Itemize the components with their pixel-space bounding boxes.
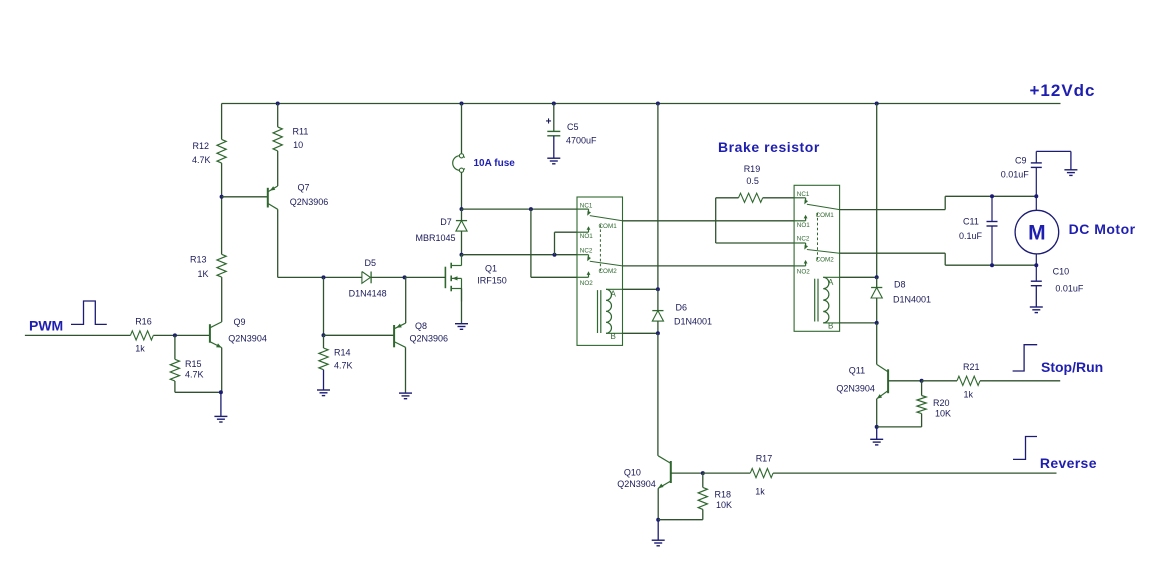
wire C11 bottom lead [991, 226, 993, 265]
node NC1 branch [529, 207, 533, 211]
node Q11 emitter [875, 425, 879, 429]
wire R21 right [980, 380, 1060, 382]
svg-text:4700uF: 4700uF [566, 136, 597, 146]
wire Q7 base [222, 196, 268, 198]
relay pin NC1 [577, 208, 589, 210]
relay K1 box [577, 197, 623, 345]
wire R13-Q9 collector [221, 277, 223, 322]
svg-text:MBR1045: MBR1045 [416, 233, 456, 243]
resistor R11 [273, 127, 282, 151]
svg-text:0.1uF: 0.1uF [959, 231, 983, 241]
svg-text:NO1: NO1 [580, 233, 593, 240]
wire K1 COM2 - K2 NO2 [623, 265, 795, 267]
svg-text:D1N4148: D1N4148 [349, 288, 387, 298]
svg-text:+12Vdc: +12Vdc [1030, 81, 1096, 100]
wire R11 top lead [277, 104, 279, 127]
wire Q7 collector to D5 [278, 276, 362, 278]
resistor R20 [917, 396, 926, 414]
node R18 top [701, 471, 705, 475]
resistor R16 [130, 331, 153, 340]
wire K2 COM1 out [840, 209, 946, 211]
node rail-K2 [875, 102, 879, 106]
wire C5 top lead [553, 104, 555, 132]
node K1 B [656, 331, 660, 335]
svg-text:1k: 1k [755, 487, 765, 497]
diode D5 [362, 272, 371, 284]
wire Q8 collector [405, 347, 407, 393]
node D5 anode [322, 275, 326, 279]
ground Q9 [220, 392, 222, 416]
relay K1 dashed link [599, 225, 601, 274]
node K2 B [875, 321, 879, 325]
relay K1 coil [606, 289, 612, 333]
svg-text:0.01uF: 0.01uF [1001, 170, 1030, 180]
wire R19 right [763, 197, 794, 199]
svg-text:R20: R20 [933, 398, 950, 408]
capacitor C10 [1031, 280, 1042, 282]
svg-text:D1N4001: D1N4001 [674, 317, 712, 327]
ground Q1 [455, 323, 468, 325]
svg-text:NC1: NC1 [797, 191, 810, 198]
wire rail to K1 coil [657, 104, 659, 290]
svg-text:A: A [828, 278, 834, 287]
resistor R14 [319, 348, 328, 370]
node Q9 emitter-gnd [219, 390, 223, 394]
svg-text:Q2N3906: Q2N3906 [410, 334, 449, 344]
diode D6 [652, 310, 663, 312]
wire D6 leads [657, 289, 659, 310]
svg-text:PWM: PWM [29, 317, 63, 333]
ground Q8 [399, 392, 412, 394]
relay blade NC1-COM1 [807, 204, 840, 209]
wire K1 coil A [606, 288, 623, 290]
wire Q11 emitter [876, 399, 878, 427]
wire Q8 emitter up [405, 277, 407, 323]
svg-text:C11: C11 [963, 217, 979, 227]
wire K2 COM2 out [840, 252, 946, 254]
wire C11 top lead [991, 196, 993, 221]
svg-text:10A fuse: 10A fuse [474, 158, 516, 169]
wire R12 top lead [221, 104, 223, 140]
mosfet Q1 IRF150 [444, 267, 446, 289]
wire fuse bottom lead [461, 172, 463, 209]
svg-text:R21: R21 [963, 362, 980, 372]
svg-text:NO2: NO2 [797, 269, 810, 276]
relay pin NO2 [794, 265, 806, 267]
wire Q11 base [888, 380, 922, 382]
fuse F1 10A [453, 156, 465, 171]
relay pin NC2 [794, 242, 806, 244]
ground R14 [323, 370, 325, 390]
transistor Q9 [209, 324, 211, 343]
relay pin NO1 [794, 220, 806, 222]
relay pin NC2 [577, 254, 589, 256]
node motor top [1034, 194, 1038, 198]
transistor Q10 [670, 461, 672, 483]
wire R15 top lead [174, 335, 176, 359]
node D7 top [460, 207, 464, 211]
svg-text:D5: D5 [365, 258, 377, 268]
svg-text:Q7: Q7 [298, 182, 310, 192]
wire C10 top lead [1035, 265, 1037, 281]
diode D8 [871, 287, 882, 289]
svg-text:D6: D6 [676, 303, 688, 313]
resistor R18 [698, 487, 707, 509]
node rail-R11 [276, 102, 280, 106]
step symbol Stop/Run [1013, 345, 1038, 371]
wire D5-Q1 gate [371, 276, 404, 278]
node Q7 base [220, 195, 224, 199]
step symbol Reverse [1013, 437, 1037, 460]
wire Q1 gate [405, 276, 446, 278]
svg-text:Reverse: Reverse [1040, 455, 1097, 471]
wire R19 left loop [716, 197, 739, 199]
svg-text:D1N4001: D1N4001 [893, 295, 931, 305]
wire Q10 base [671, 472, 703, 474]
svg-text:C10: C10 [1053, 267, 1070, 277]
svg-text:Q10: Q10 [624, 468, 641, 478]
wire motor top lead [1035, 196, 1037, 210]
svg-text:R13: R13 [190, 255, 207, 265]
wire motor bottom lead [1035, 254, 1037, 265]
wire PWM input [25, 334, 130, 336]
svg-text:R11: R11 [293, 126, 309, 136]
relay blade NC2-COM2 [807, 250, 840, 254]
node Q1 drain [460, 253, 464, 257]
wire D7top-K1 NC1 [462, 208, 578, 210]
wire D7 anode [461, 231, 463, 255]
relay blade NC2-COM2 [590, 261, 623, 266]
wire K1 COM1 - K2 NO1 [623, 220, 795, 222]
resistor R12 [217, 139, 226, 163]
pulse symbol [71, 301, 107, 324]
svg-text:R14: R14 [334, 348, 351, 358]
node R15 top [173, 333, 177, 337]
node rail-fuse [460, 102, 464, 106]
motor M1 circle [1015, 210, 1059, 254]
wire Q7 collector down [277, 209, 279, 277]
relay K2 dashed link [817, 213, 819, 262]
ground C10 [1035, 286, 1037, 307]
svg-text:Q2N3904: Q2N3904 [228, 333, 267, 343]
svg-text:DC Motor: DC Motor [1069, 221, 1136, 237]
wire K2 coil A [823, 276, 839, 278]
resistor R13 [217, 254, 226, 277]
wire K2 coil B [823, 322, 839, 324]
relay K1 coil core [597, 290, 599, 333]
svg-text:Brake resistor: Brake resistor [718, 139, 820, 155]
svg-text:10K: 10K [716, 500, 732, 510]
svg-text:4.7K: 4.7K [185, 370, 204, 380]
wire NC2-NO1 link [554, 232, 556, 255]
capacitor C5 [547, 130, 560, 132]
diode D7 [456, 220, 467, 222]
relay K2 coil core [814, 279, 816, 322]
svg-text:NC2: NC2 [797, 236, 810, 243]
svg-text:1k: 1k [964, 390, 974, 400]
svg-text:C5: C5 [567, 122, 579, 132]
wire K1 coil B [606, 332, 623, 334]
svg-text:D7: D7 [440, 217, 452, 227]
svg-text:COM2: COM2 [599, 268, 618, 275]
svg-text:Q2N3906: Q2N3906 [290, 197, 329, 207]
wire C9 top lead [1035, 151, 1037, 163]
svg-text:4.7K: 4.7K [192, 155, 211, 165]
node D5 cathode [403, 275, 407, 279]
node rail-C5 [552, 102, 556, 106]
svg-text:Q9: Q9 [234, 317, 246, 327]
wire +12V rail [222, 103, 1061, 105]
svg-text:10: 10 [293, 140, 303, 150]
wire K2 B to Q11 [876, 323, 878, 365]
ground Q10 [657, 520, 659, 541]
wire NC1-NO2 link [530, 209, 532, 277]
wire C9 bottom lead [1035, 167, 1037, 196]
svg-text:M: M [1028, 222, 1046, 245]
transistor Q7 [267, 188, 269, 208]
wire D8 leads [876, 277, 878, 287]
wire R18 leads [702, 473, 704, 487]
wire Q9 emitter [221, 348, 223, 393]
wire rail to K2 coil [876, 104, 878, 278]
ground Q11 [876, 427, 878, 439]
relay pin NC1 [794, 197, 806, 199]
svg-text:R18: R18 [715, 490, 732, 500]
node C11 top [990, 194, 994, 198]
svg-text:R12: R12 [192, 141, 209, 151]
transistor Q8 [393, 325, 395, 347]
svg-text:0.5: 0.5 [746, 176, 759, 186]
svg-text:R17: R17 [756, 454, 773, 464]
svg-text:4.7K: 4.7K [334, 361, 353, 371]
relay K2 box [794, 185, 840, 331]
resistor R21 [957, 376, 980, 385]
wire R17 right [773, 472, 1056, 474]
svg-text:1K: 1K [197, 269, 208, 279]
wire base to R21 [922, 380, 957, 382]
wire R14 node link [323, 277, 325, 335]
relay pin NO1 [577, 231, 589, 233]
node C11 bottom [990, 263, 994, 267]
wire R16-Q9 base [153, 334, 210, 336]
svg-text:1k: 1k [135, 343, 145, 353]
svg-text:Q11: Q11 [849, 366, 865, 376]
wire base to R17 [703, 472, 751, 474]
wire Q10 emitter [657, 488, 659, 519]
svg-text:Q2N3904: Q2N3904 [836, 384, 875, 394]
svg-text:+: + [546, 117, 552, 128]
wire Q1 source [461, 289, 463, 324]
wire R11-Q7 emitter [277, 151, 279, 186]
svg-text:D8: D8 [894, 279, 906, 289]
node R20 top [920, 379, 924, 383]
node K1 A [656, 287, 660, 291]
svg-text:10K: 10K [935, 409, 951, 419]
node rail-K1 [656, 102, 660, 106]
wire R14 top lead [323, 335, 325, 348]
resistor R19 [739, 193, 763, 202]
svg-text:COM1: COM1 [816, 212, 835, 219]
wire R20 leads [921, 381, 923, 396]
ground C5 [553, 136, 555, 158]
capacitor C9 [1031, 162, 1042, 164]
ground C9 [1070, 151, 1072, 169]
resistor R15 [170, 359, 179, 381]
svg-text:Q1: Q1 [485, 263, 497, 273]
svg-text:R15: R15 [185, 359, 202, 369]
svg-text:Q2N3904: Q2N3904 [617, 479, 656, 489]
node NC2 branch [553, 253, 557, 257]
svg-text:COM2: COM2 [816, 257, 835, 264]
svg-text:C9: C9 [1015, 156, 1027, 166]
svg-text:NO2: NO2 [580, 280, 593, 287]
svg-text:Q8: Q8 [415, 321, 427, 331]
svg-text:R19: R19 [744, 164, 761, 174]
wire fuse top lead [461, 104, 463, 154]
relay blade NC1-COM1 [590, 216, 623, 221]
svg-text:NO1: NO1 [797, 222, 810, 229]
svg-text:NC1: NC1 [580, 202, 593, 209]
resistor R17 [750, 469, 773, 478]
svg-text:NC2: NC2 [580, 247, 593, 254]
node Q8 base [322, 333, 326, 337]
wire D7 cathode lead [461, 209, 463, 221]
capacitor C11 [987, 221, 998, 223]
wire R15 bottom [174, 381, 176, 392]
transistor Q11 [887, 369, 889, 393]
node motor bottom [1034, 263, 1038, 267]
relay K2 coil [823, 277, 829, 323]
svg-text:IRF150: IRF150 [477, 276, 507, 286]
wire Q1drain-K1 NC2 [462, 254, 578, 256]
svg-text:0.01uF: 0.01uF [1055, 284, 1084, 294]
svg-text:COM1: COM1 [599, 223, 618, 230]
wire K1 B to Q10 [657, 333, 659, 456]
node K2 A [875, 275, 879, 279]
wire Q8 base [324, 334, 395, 336]
svg-text:Stop/Run: Stop/Run [1041, 359, 1103, 375]
svg-text:A: A [611, 290, 617, 299]
node Q10 emitter [656, 518, 660, 522]
wire R12-R13 [221, 163, 223, 254]
relay pin NO2 [577, 276, 589, 278]
svg-text:R16: R16 [135, 316, 152, 326]
